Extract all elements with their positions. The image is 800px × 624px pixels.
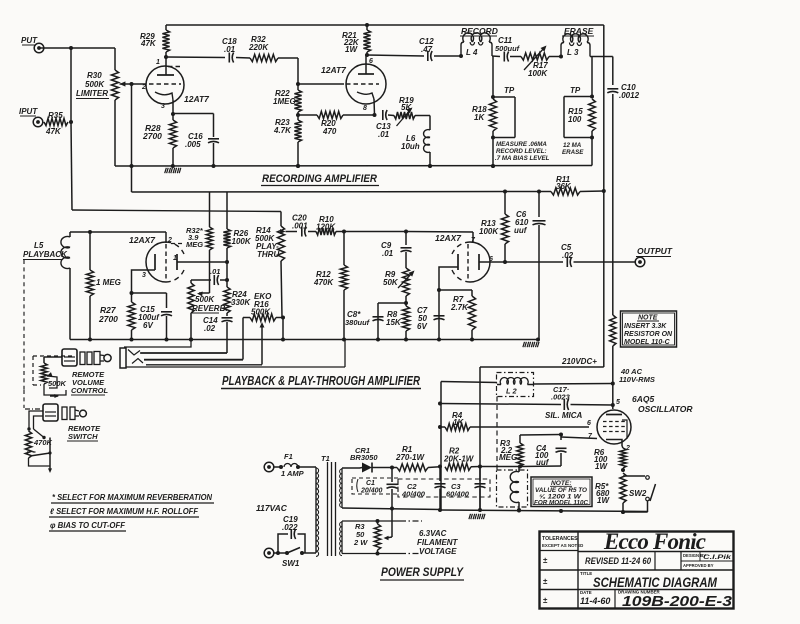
svg-text:±: ± bbox=[543, 577, 548, 586]
label L6 10uh bbox=[401, 134, 420, 151]
jack contact assembly bbox=[120, 340, 345, 369]
svg-text:RECORD LEVEL:: RECORD LEVEL: bbox=[496, 148, 547, 155]
svg-text:1: 1 bbox=[156, 59, 160, 66]
svg-text:MEG: MEG bbox=[186, 240, 203, 249]
wire R16 right to rail bbox=[281, 318, 285, 342]
capacitor C7 50 6V bbox=[434, 316, 445, 320]
label C4 bbox=[535, 444, 550, 467]
label R32 220K bbox=[248, 35, 269, 52]
svg-text:F1: F1 bbox=[284, 452, 293, 461]
label R2 bbox=[443, 447, 475, 464]
svg-text:.01: .01 bbox=[382, 249, 394, 258]
title recording amplifier bbox=[261, 173, 379, 186]
svg-text:uuf: uuf bbox=[536, 458, 550, 467]
svg-text:RECORDING AMPLIFIER: RECORDING AMPLIFIER bbox=[262, 173, 377, 185]
label remote switch bbox=[67, 424, 101, 441]
wire L3 to C10 corner bbox=[590, 56, 613, 58]
svg-text:4.7K: 4.7K bbox=[273, 126, 292, 135]
resistor R32 220K bbox=[236, 54, 298, 61]
label 210VDC bbox=[561, 357, 597, 366]
label 1 MEG bbox=[96, 278, 121, 287]
resistor 470K remote bbox=[25, 411, 52, 473]
label RECORD L4 bbox=[460, 26, 498, 57]
test point TP erase loop bbox=[564, 97, 594, 140]
resistor R29 47K bbox=[162, 25, 169, 59]
label ERASE L3 bbox=[562, 26, 594, 57]
inductor L2 bbox=[497, 373, 535, 397]
wire to 6AQ5 pin5 bbox=[611, 384, 615, 410]
svg-text:* SELECT FOR MAXIMUM REVER: * SELECT FOR MAXIMUM REVERBERATION bbox=[52, 493, 212, 502]
ground power supply bbox=[469, 514, 485, 519]
svg-text:2 W: 2 W bbox=[353, 538, 368, 547]
wiper wire R30 to grid bbox=[120, 81, 147, 86]
svg-text:6AQ5: 6AQ5 bbox=[632, 394, 654, 404]
wire input to R14 bbox=[72, 210, 281, 212]
junction jack bbox=[189, 338, 193, 342]
svg-text:6V: 6V bbox=[417, 322, 427, 331]
resistor R7 2.7K bbox=[468, 296, 475, 340]
svg-text:MEG: MEG bbox=[499, 453, 517, 462]
svg-text:2.7K: 2.7K bbox=[450, 303, 469, 312]
resistor 3.3K note model 110-C bbox=[610, 315, 616, 386]
label CR1 BR3050 bbox=[350, 446, 378, 462]
footnote 1 bbox=[51, 493, 214, 503]
label R21 bbox=[342, 31, 360, 54]
pentode V3 6AQ5 bbox=[587, 399, 631, 452]
svg-text:VOLTAGE: VOLTAGE bbox=[419, 547, 457, 556]
svg-text:Ecco Fonic: Ecco Fonic bbox=[603, 529, 706, 554]
wire plate V2a bbox=[177, 260, 229, 264]
svg-text:.0023: .0023 bbox=[551, 393, 571, 402]
wire B+ top rail bbox=[166, 23, 604, 27]
label C16 .005 bbox=[185, 132, 203, 149]
wire oscillator feed vertical bbox=[438, 382, 442, 513]
playback head L5 bbox=[61, 232, 70, 340]
svg-text:uuf: uuf bbox=[514, 226, 528, 235]
record head L4 bbox=[461, 33, 492, 56]
wire C5 to output bbox=[574, 261, 636, 263]
svg-text:20/400: 20/400 bbox=[360, 488, 383, 495]
rheostat R17 100K bbox=[510, 53, 563, 60]
resistor R27 2700 bbox=[128, 293, 135, 342]
svg-text:C.I.Pik: C.I.Pik bbox=[703, 554, 732, 561]
label R13 100K bbox=[479, 219, 499, 236]
svg-text:470: 470 bbox=[322, 127, 337, 136]
capacitor C3 60/400 bbox=[446, 467, 486, 511]
svg-text:.02: .02 bbox=[562, 251, 574, 260]
svg-text:POWER SUPPLY: POWER SUPPLY bbox=[381, 567, 464, 579]
dashed box C2 C3 bbox=[398, 479, 490, 497]
svg-text:THRU: THRU bbox=[257, 250, 279, 259]
svg-text:SW2: SW2 bbox=[629, 489, 647, 498]
svg-text:6V: 6V bbox=[143, 321, 153, 330]
resistor R35 47K bbox=[44, 111, 68, 136]
svg-text:.47: .47 bbox=[421, 45, 433, 54]
wire L4 node down bbox=[491, 57, 495, 100]
svg-text:6: 6 bbox=[587, 420, 591, 427]
svg-text:500K: 500K bbox=[48, 379, 67, 388]
svg-text:120K: 120K bbox=[316, 223, 336, 232]
capacitor C17 .0023 bbox=[551, 385, 571, 410]
svg-text:20K-1W: 20K-1W bbox=[443, 455, 475, 464]
svg-text:500K: 500K bbox=[251, 308, 271, 317]
resistor R8 15K bbox=[402, 303, 409, 340]
resistor R28 2700 bbox=[169, 112, 176, 166]
rheostat R3 50 2W bbox=[353, 509, 392, 556]
svg-text:RECORD: RECORD bbox=[461, 26, 498, 36]
svg-text:47K: 47K bbox=[140, 39, 157, 48]
svg-text:LIMITER: LIMITER bbox=[76, 89, 108, 98]
connector AC hot bbox=[264, 462, 274, 472]
label R18 bbox=[472, 105, 487, 122]
resistor R6 100 1W bbox=[620, 446, 626, 472]
svg-text:TITLE: TITLE bbox=[580, 571, 592, 576]
resistor R22 1MEG bbox=[294, 90, 301, 117]
triode V1a 12AT7 bbox=[141, 57, 184, 114]
dashed grid stub V2a bbox=[171, 243, 183, 245]
wire R18 to rail bbox=[491, 138, 495, 169]
potentiometer R16 EKO 500K bbox=[243, 314, 285, 321]
svg-text:.001: .001 bbox=[292, 221, 308, 230]
wire C17 to pin5 bbox=[571, 404, 613, 407]
dashed shield line bbox=[496, 397, 498, 471]
erase head L3 bbox=[561, 34, 590, 57]
fuse F1 bbox=[274, 464, 316, 470]
connector INPUT 2 bbox=[19, 107, 43, 127]
svg-text:1W: 1W bbox=[595, 462, 608, 471]
wire R32 down to R22 bbox=[296, 58, 300, 90]
label R6 bbox=[594, 448, 608, 471]
svg-text:±: ± bbox=[543, 556, 548, 565]
jack remote switch plug bbox=[43, 404, 86, 421]
svg-text:500K: 500K bbox=[85, 80, 105, 89]
svg-text:47K: 47K bbox=[45, 127, 62, 136]
label 500K REVERB bbox=[192, 295, 228, 313]
label EKO R16 500K bbox=[251, 292, 272, 317]
capacitor C10 .0012 bbox=[607, 83, 639, 100]
label R7 2.7K bbox=[450, 295, 469, 312]
svg-text:R30: R30 bbox=[87, 71, 102, 80]
svg-text:380uuf: 380uuf bbox=[345, 318, 371, 327]
capacitor C13 .01 bbox=[376, 110, 391, 139]
svg-text:.7 MA BIAS LEVEL: .7 MA BIAS LEVEL bbox=[495, 155, 550, 162]
wire grid V1b bbox=[298, 83, 344, 85]
svg-text:SW1: SW1 bbox=[282, 559, 300, 568]
wire L3 node down bbox=[590, 57, 594, 99]
svg-text:10uh: 10uh bbox=[401, 142, 420, 151]
svg-text:INSERT 3.3K: INSERT 3.3K bbox=[624, 323, 667, 330]
arrow R14 wiper bbox=[280, 229, 297, 234]
capacitor C8 380uuf bbox=[345, 310, 384, 327]
transformer T1 filament secondary bbox=[340, 521, 342, 556]
svg-text:NOTE: NOTE bbox=[638, 315, 658, 322]
label R30 500K LIMITER bbox=[76, 71, 109, 99]
svg-text:CONTROL: CONTROL bbox=[71, 386, 108, 395]
wire C8 branch bbox=[378, 303, 406, 340]
resistor R2 20K-1W bbox=[445, 463, 480, 470]
svg-text:470K: 470K bbox=[313, 278, 334, 287]
svg-text:L 4: L 4 bbox=[466, 48, 478, 57]
shield dashed line L5 to remote bbox=[24, 260, 40, 409]
svg-text:8: 8 bbox=[363, 105, 367, 112]
label C6 610uuf bbox=[514, 210, 529, 235]
svg-text:APPROVED BY: APPROVED BY bbox=[683, 563, 714, 568]
svg-text:.01: .01 bbox=[224, 45, 236, 54]
svg-text:6.3VAC: 6.3VAC bbox=[419, 529, 447, 538]
svg-text:109B-200-E-3: 109B-200-E-3 bbox=[622, 593, 733, 610]
svg-text:.005: .005 bbox=[185, 140, 201, 149]
svg-text:OUTPUT: OUTPUT bbox=[637, 246, 673, 256]
footnote 3 bbox=[49, 521, 126, 531]
svg-text:FILAMENT: FILAMENT bbox=[417, 538, 459, 547]
arrow R16 wiper bbox=[260, 322, 265, 365]
wire R26 to C21 node bbox=[225, 262, 229, 282]
label R19 5K bbox=[399, 96, 414, 112]
svg-text:1W: 1W bbox=[345, 45, 358, 54]
wire feedback vertical bbox=[131, 84, 133, 192]
resistor R20 470 bbox=[298, 111, 377, 118]
label R8 15K bbox=[386, 310, 402, 327]
title playback amplifier bbox=[221, 374, 421, 389]
label C9 bbox=[381, 241, 394, 258]
label R12 bbox=[313, 270, 334, 287]
svg-text:R35: R35 bbox=[48, 111, 63, 120]
capacitor C1 20/400 bbox=[352, 468, 398, 511]
arrow R19 wiper bbox=[397, 108, 413, 127]
wire recording ground rail bbox=[115, 164, 592, 168]
connector OUTPUT bbox=[635, 246, 673, 267]
resistor R11 36K bbox=[551, 188, 606, 195]
label remote volume control bbox=[71, 370, 108, 395]
ground recording amp bbox=[165, 168, 181, 173]
capacitor C14 .02 to jack finger bbox=[141, 313, 233, 353]
wire to R7 bbox=[439, 290, 472, 296]
svg-text:6: 6 bbox=[369, 58, 373, 65]
label R28 2700 bbox=[142, 123, 162, 141]
wire plate V2b to C5 bbox=[503, 260, 563, 264]
svg-text:BR3050: BR3050 bbox=[350, 453, 378, 462]
label R11 bbox=[556, 175, 572, 191]
wire C17 line bbox=[440, 404, 561, 405]
svg-text:5: 5 bbox=[616, 399, 620, 406]
capacitor C6 610uuf bbox=[533, 221, 546, 340]
capacitor C16 .005 bbox=[208, 139, 219, 166]
svg-text:T1: T1 bbox=[321, 454, 330, 463]
resistor R5 680 1W bbox=[620, 473, 626, 514]
label 12AT7 V1a bbox=[184, 94, 210, 104]
wire C6 top bbox=[537, 190, 541, 218]
resistor R26 100K bbox=[223, 192, 230, 263]
label R4 bbox=[452, 411, 464, 427]
resistor 1 MEG bbox=[86, 232, 93, 342]
svg-text:2: 2 bbox=[141, 84, 146, 91]
capacitor C5 .02 bbox=[561, 243, 574, 267]
wire L4 to C11 bbox=[492, 55, 500, 58]
resistor R12 470K bbox=[340, 232, 347, 342]
svg-text:MODEL 110-C: MODEL 110-C bbox=[624, 339, 671, 346]
svg-text:12AT7: 12AT7 bbox=[184, 94, 210, 104]
svg-text:100K: 100K bbox=[232, 237, 252, 246]
svg-text:36K: 36K bbox=[556, 182, 572, 191]
test point TP record loop bbox=[491, 97, 515, 140]
potentiometer R30 500K bbox=[111, 48, 118, 166]
svg-text:SWITCH: SWITCH bbox=[68, 432, 98, 441]
svg-text:ℓ SELECT FOR MAXIMUM H.F.: ℓ SELECT FOR MAXIMUM H.F. ROLLOFF bbox=[50, 507, 199, 516]
wire erase line down bbox=[612, 57, 614, 86]
wire input bus vertical bbox=[69, 48, 73, 210]
label .01 bbox=[210, 267, 220, 276]
capacitor C11 500uuf bbox=[495, 36, 521, 62]
wire filament leads bbox=[400, 521, 422, 554]
resistor R4 1K bbox=[440, 423, 589, 430]
label R26 100K bbox=[232, 229, 252, 246]
svg-text:2700: 2700 bbox=[98, 314, 118, 324]
label SIL MICA bbox=[545, 411, 583, 420]
resistor R13 100K bbox=[501, 190, 508, 263]
svg-text:12 MA: 12 MA bbox=[563, 142, 582, 149]
label R29 bbox=[140, 32, 157, 48]
wire plate V1b to C12 bbox=[366, 55, 424, 56]
wire R16 left to jack bbox=[144, 318, 243, 360]
label C15 bbox=[138, 305, 160, 330]
svg-text:220K: 220K bbox=[248, 43, 269, 52]
capacitor C15 100uf 6V bbox=[161, 312, 172, 342]
svg-text:270-1W: 270-1W bbox=[395, 453, 425, 462]
label 6.3VAC filament voltage bbox=[417, 529, 459, 556]
label C14 bbox=[203, 316, 218, 333]
svg-text:FOR MODEL 110C: FOR MODEL 110C bbox=[534, 500, 588, 507]
label R23 bbox=[273, 118, 292, 135]
svg-text:117VAC: 117VAC bbox=[256, 503, 288, 513]
svg-text:100: 100 bbox=[568, 115, 582, 124]
resistor R15 100 bbox=[589, 99, 596, 138]
wire B+ 210VDC bbox=[480, 366, 604, 368]
wire playback ground rail bbox=[70, 338, 540, 342]
capacitor C12 .47 bbox=[419, 37, 434, 61]
label 12AX7 V2a bbox=[129, 235, 156, 245]
svg-text:L 2: L 2 bbox=[506, 387, 518, 396]
svg-text:TP: TP bbox=[570, 86, 581, 95]
arrow reverb wiper bbox=[197, 292, 210, 297]
note 12ma erase bbox=[562, 142, 584, 156]
svg-text:500uuf: 500uuf bbox=[495, 44, 521, 53]
label R10 120K bbox=[316, 215, 336, 232]
wire input jack to R30 bbox=[39, 46, 115, 50]
potentiometer 500K REVERB bbox=[188, 280, 194, 342]
wire supply ground rail bbox=[441, 509, 648, 515]
triode V2a 12AX7 bbox=[132, 232, 185, 293]
label 6AQ5 OSCILLATOR bbox=[632, 394, 693, 414]
label TP record bbox=[504, 86, 515, 95]
svg-text:50K: 50K bbox=[383, 278, 399, 287]
arrow R17 wiper bbox=[524, 46, 547, 71]
resistor R18 1K bbox=[489, 99, 496, 138]
label R17 100K bbox=[528, 61, 548, 78]
wire L5 to grid V2a bbox=[70, 230, 166, 234]
wire cathode V2b down bbox=[437, 288, 441, 340]
wire B+ node bbox=[480, 466, 520, 468]
label R1 bbox=[395, 445, 425, 462]
svg-text:φ BIAS TO CUT-OFF: φ BIAS TO CUT-OFF bbox=[50, 521, 126, 530]
svg-text:12AT7: 12AT7 bbox=[321, 65, 347, 75]
wire C10 down bbox=[612, 94, 614, 315]
svg-text:1MEG: 1MEG bbox=[273, 97, 296, 106]
wire filament stubs bbox=[342, 521, 400, 554]
title block bbox=[540, 529, 735, 610]
capacitor C20 .001 bbox=[292, 214, 308, 237]
svg-text:1K: 1K bbox=[474, 113, 485, 122]
capacitor .01 reverb bbox=[191, 275, 227, 285]
transformer T1 primary bbox=[316, 467, 319, 556]
wire to C9 and grid V2b bbox=[344, 230, 473, 243]
transformer T1 core bbox=[328, 462, 336, 556]
wire supply mid rail bbox=[342, 508, 441, 510]
resistor R1 270-1W bbox=[392, 464, 440, 471]
svg-text:6: 6 bbox=[489, 256, 493, 263]
label 40AC 110V-RMS bbox=[619, 367, 655, 384]
svg-text:.01: .01 bbox=[210, 267, 220, 276]
svg-text:PLAYBACK & PLAY-THROUGH AMPLI: PLAYBACK & PLAY-THROUGH AMPLIFIER bbox=[222, 374, 420, 388]
capacitor C19 .022 bbox=[278, 529, 305, 553]
resistor R21 22K 1W bbox=[363, 25, 370, 57]
svg-text:12AX7: 12AX7 bbox=[435, 233, 462, 243]
svg-text:RESISTOR ON: RESISTOR ON bbox=[624, 331, 673, 338]
label F1 fuse bbox=[281, 452, 305, 478]
svg-text:L5: L5 bbox=[34, 241, 44, 250]
label 117VAC bbox=[256, 503, 288, 513]
wire L2 to 6AQ5 bbox=[534, 383, 613, 386]
svg-text:3: 3 bbox=[142, 272, 146, 279]
svg-text:5K: 5K bbox=[401, 103, 412, 112]
wire R15 to rail bbox=[591, 138, 593, 166]
potentiometer R14 500K bbox=[277, 212, 284, 318]
label R5 bbox=[595, 482, 610, 505]
triode V1b 12AT7 bbox=[346, 55, 386, 115]
svg-text:1W: 1W bbox=[597, 496, 610, 505]
wire to L2 bbox=[441, 382, 497, 383]
jack remote volume plug bbox=[62, 349, 111, 366]
svg-text:IPUT: IPUT bbox=[19, 107, 38, 116]
arrow R9 wiper bbox=[398, 271, 415, 289]
svg-text:.01: .01 bbox=[378, 130, 390, 139]
svg-text:1 AMP: 1 AMP bbox=[281, 469, 305, 478]
label C7 bbox=[417, 306, 428, 331]
svg-text:SCHEMATIC DIAGRAM: SCHEMATIC DIAGRAM bbox=[593, 574, 717, 590]
svg-text:C1: C1 bbox=[366, 480, 375, 487]
potentiometer 500K remote bbox=[33, 356, 72, 398]
wire plate V1a to C18 bbox=[166, 56, 225, 59]
svg-text:15K: 15K bbox=[386, 318, 402, 327]
capacitor C4 100uuf bbox=[520, 448, 567, 466]
capacitor C18 .01 bbox=[222, 37, 237, 63]
label R14 500K PLAY-THRU bbox=[255, 226, 279, 259]
svg-text:100K: 100K bbox=[479, 227, 499, 236]
switch SW2 bbox=[623, 476, 656, 512]
label R24 330K bbox=[231, 290, 251, 307]
svg-text:ERASE: ERASE bbox=[564, 26, 594, 36]
svg-text:EXCEPT AS NOTED: EXCEPT AS NOTED bbox=[542, 543, 583, 548]
footnote 2 bbox=[49, 507, 199, 517]
svg-text:11-4-60: 11-4-60 bbox=[580, 596, 610, 606]
rheostat R19 5K bbox=[388, 112, 430, 119]
wire cathode V2a node bbox=[130, 291, 167, 308]
svg-text:100K: 100K bbox=[528, 69, 548, 78]
resistor R23 4.7K bbox=[294, 115, 301, 168]
connector INPUT top bbox=[21, 36, 44, 53]
svg-text:1K: 1K bbox=[453, 418, 464, 427]
svg-text:MEASURE .06MA: MEASURE .06MA bbox=[496, 141, 547, 148]
label L5 PLAYBACK bbox=[23, 241, 68, 260]
